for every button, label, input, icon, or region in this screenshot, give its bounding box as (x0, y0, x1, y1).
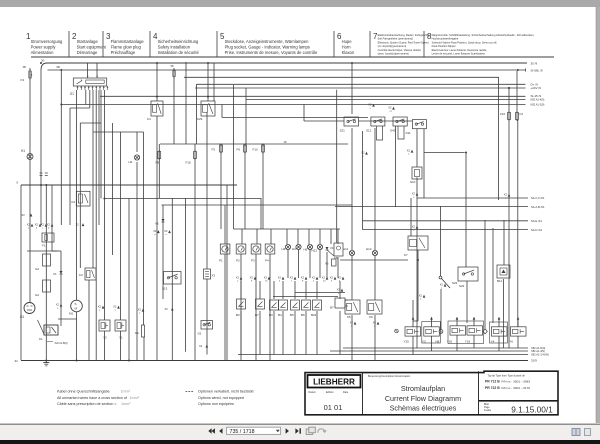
wire Y3 gnd (431, 336, 433, 351)
option frame Y4 (490, 322, 508, 343)
svg-text:Startanlage: Startanlage (77, 39, 99, 44)
svg-text:P2: P2 (236, 259, 240, 263)
svg-text:Klaxon: Klaxon (342, 50, 355, 55)
plug X5 (325, 259, 336, 266)
svg-text:Magnetventile: Schildfloatste: Magnetventile: Schildfloatstellung, Sich… (432, 33, 535, 37)
header section 7 (373, 32, 430, 56)
wire col F5 up (220, 144, 222, 147)
indicator lamp H4 (292, 244, 301, 251)
wire col S2 dn (440, 289, 442, 330)
statusbar layout icon 1 (572, 429, 580, 436)
toolbar rotate icon (318, 429, 326, 433)
wire mid link 198 (104, 198, 261, 200)
sensor B6 (301, 300, 311, 317)
wire stair 108 (70, 107, 90, 109)
switch S13 (162, 272, 181, 291)
junction bus30 a (40, 62, 42, 64)
svg-text:V4: V4 (330, 246, 334, 250)
svg-text:PR 712 B: PR 712 B (485, 380, 500, 384)
relay K3 (79, 268, 96, 280)
svg-text:Y1: Y1 (119, 336, 123, 340)
break mark col41 (40, 173, 43, 176)
wire col 44 low (40, 185, 42, 225)
relay K4 (147, 101, 163, 121)
wire Y16 gnd (473, 335, 475, 348)
svg-text:Feuille: Feuille (484, 409, 492, 412)
connector X2 (41, 223, 48, 230)
wire col F10 col (508, 88, 510, 112)
wire K1 to M1 (58, 318, 77, 320)
svg-text:H8: H8 (436, 340, 440, 344)
svg-text:Current Flow Diagramm: Current Flow Diagramm (385, 394, 461, 403)
connector X2 S13 (165, 307, 174, 311)
wire col R1 dn (143, 337, 145, 360)
toolbar prev-page button (219, 428, 222, 433)
switch S10 (410, 167, 422, 184)
relay K7 (404, 236, 428, 257)
svg-text:31/9: 31/9 (531, 359, 537, 363)
svg-text:735 / 1718: 735 / 1718 (230, 429, 255, 435)
indicator lamp H5 (304, 244, 313, 251)
svg-text:X2: X2 (153, 229, 157, 233)
battery G1 (20, 303, 35, 320)
wire col F1-K1-ground (45, 185, 47, 360)
connector X2 (138, 308, 145, 315)
connector X2 G1 col (22, 213, 33, 217)
svg-text:X2: X2 (388, 106, 392, 110)
svg-text:Levier de sécurité, Lame flott: Levier de sécurité, Lame flottante Scari… (432, 52, 486, 56)
wire Y3 top (431, 320, 433, 327)
svg-text:X2: X2 (368, 103, 372, 107)
junction bus30 b (156, 62, 158, 64)
wire col K3 down (88, 280, 90, 360)
svg-text:Plug socket, Gauge - Indicator: Plug socket, Gauge - Indicator, Warning … (225, 44, 310, 49)
wire K5 K6 link (295, 292, 345, 294)
wire col K3 up (79, 123, 81, 268)
wire loop S12 (377, 126, 383, 140)
toolbar first-page button (208, 428, 215, 433)
svg-text:F10: F10 (500, 112, 506, 116)
wire B7 gnd (339, 281, 341, 355)
wire col V1 (60, 251, 62, 326)
svg-text:Y26: Y26 (447, 340, 453, 344)
sensor B22 (311, 300, 322, 317)
svg-text:Prise, Instruments de mesure,: Prise, Instruments de mesure, Voyants de… (225, 50, 318, 55)
svg-text:X2: X2 (199, 344, 203, 348)
wire loop S43 (398, 126, 404, 139)
svg-text:S23: S23 (452, 281, 458, 285)
svg-text:M1: M1 (69, 312, 73, 316)
svg-text:Stromversorgung: Stromversorgung (31, 39, 63, 44)
svg-text:X2: X2 (264, 276, 268, 280)
wire col H4 dn (298, 250, 300, 279)
connector X2 (368, 103, 375, 110)
svg-text:K3: K3 (79, 273, 83, 277)
connector X2 (236, 276, 243, 283)
diode V1 (53, 271, 63, 276)
wire col S1 a4 (100, 90, 102, 199)
wire col S2 (440, 206, 442, 276)
svg-text:X2: X2 (338, 276, 342, 280)
svg-text:B6: B6 (301, 313, 305, 317)
svg-text:01 01: 01 01 (324, 403, 343, 412)
wire rail to Y4 column (184, 77, 499, 200)
bus SI-58L rail (48, 68, 543, 72)
legend options note (186, 390, 254, 407)
fuse supply rail (160, 143, 348, 145)
svg-text:G2: G2 (35, 267, 39, 271)
connector X2 (456, 317, 459, 320)
wire col S1 a5 (98, 90, 100, 225)
svg-text:B5: B5 (290, 313, 294, 317)
svg-text:X2: X2 (322, 276, 326, 280)
wire mid rail 117 (222, 117, 368, 119)
svg-text:Power supply: Power supply (31, 44, 57, 49)
svg-text:X5: X5 (325, 262, 329, 266)
right gray strip (597, 7, 600, 423)
chassis ground (43, 360, 49, 366)
svg-text:LIEBHERR: LIEBHERR (313, 378, 355, 387)
connector X2 (517, 317, 520, 320)
svg-text:PR 722 B: PR 722 B (485, 386, 500, 390)
wire Y6 gnd (517, 336, 519, 348)
svg-text:X22 A1-B(9): X22 A1-B(9) (55, 342, 68, 345)
wire col F8 up (158, 144, 160, 151)
wire col H11 dn (351, 256, 353, 300)
toolbar page field (227, 427, 281, 435)
svg-text:Stromlaufplan: Stromlaufplan (401, 384, 445, 393)
svg-text:6B: 6B (57, 65, 60, 69)
wire col S1 a (85, 90, 87, 105)
svg-text:S10: S10 (410, 180, 416, 184)
wire col S1 up2 (96, 63, 98, 78)
glow plug G2 lower (35, 280, 51, 297)
connector X2 (56, 303, 63, 310)
svg-text:SI-58L /9: SI-58L /9 (531, 68, 543, 72)
connector X2 (440, 283, 447, 290)
solenoid valve Y16 (465, 326, 483, 344)
fuse F2 (516, 111, 524, 121)
svg-text:B11: B11 (497, 279, 502, 283)
wire Y4 gnd (498, 336, 500, 351)
wire col 61 (60, 70, 62, 225)
wire col H22 dn (319, 250, 321, 279)
bus +24V rail (195, 86, 541, 90)
diamond H10 (483, 329, 487, 334)
connector X2 (113, 305, 120, 312)
svg-text:Edition: Edition (326, 391, 334, 394)
connector X2 (278, 276, 285, 283)
relay K6 (367, 300, 382, 319)
wire col F3-G1 (29, 68, 31, 302)
header section 1 (26, 32, 63, 55)
indicator lamp H12 (366, 247, 378, 256)
wire rail S4-C (417, 196, 545, 200)
svg-text:F1: F1 (42, 244, 46, 248)
fuse F10 (253, 144, 265, 154)
svg-text:Installation de sécurité: Installation de sécurité (158, 50, 200, 55)
junction A1-2 (60, 104, 62, 106)
ignition switch S1 (70, 76, 108, 96)
solenoid valve Y26 (447, 326, 466, 344)
wire col F15 up (194, 144, 196, 151)
svg-text:F5: F5 (212, 148, 216, 152)
svg-text:Hochdruckwertfreigabe: Hochdruckwertfreigabe (432, 37, 459, 41)
wire col F6 dn (244, 152, 246, 229)
title block page cell (484, 403, 553, 414)
svg-text:K82 A1-2(9): K82 A1-2(9) (531, 103, 545, 107)
bus X82 A1-D rail (343, 346, 545, 350)
glow plug G2 upper (35, 254, 51, 271)
svg-text:P3: P3 (251, 259, 255, 263)
header divider 8 (423, 31, 425, 57)
wire col 21 (20, 185, 22, 360)
svg-text:B4: B4 (278, 313, 282, 317)
wire col H11 (351, 128, 353, 250)
sensor B3 (269, 300, 279, 317)
svg-text:Kabel ohne Querschnittsangabe: Kabel ohne Querschnittsangabe (57, 390, 110, 394)
junction 58L b (517, 69, 519, 71)
toolbar last-page button (295, 428, 301, 433)
svg-text:X2: X2 (98, 305, 102, 309)
wire col S1 d (104, 90, 106, 255)
svg-text:X2: X2 (41, 223, 45, 227)
header section 5 (220, 32, 318, 55)
wire gauge bracket (234, 229, 341, 244)
svg-text:K1: K1 (39, 337, 43, 341)
svg-text:X2: X2 (337, 288, 341, 292)
junction bus15 c (103, 198, 105, 200)
connector X2 (373, 321, 380, 328)
sensor B7 (255, 299, 265, 317)
svg-text:1mm²: 1mm² (121, 402, 131, 406)
sensor B5 (290, 300, 300, 317)
svg-text:S4-C,0 /01: S4-C,0 /01 (531, 196, 545, 200)
toolbar snapshot icon (306, 427, 315, 434)
connector X2 (27, 223, 34, 230)
wire Y4 top (498, 320, 500, 327)
wire col V4 (326, 252, 328, 278)
svg-text:F10: F10 (253, 148, 259, 152)
wire B6 gnd (305, 281, 307, 355)
wire col 261 (260, 198, 262, 229)
Liebherr logo (308, 375, 361, 388)
svg-text:3B: 3B (23, 65, 26, 69)
wire col M1 up (76, 90, 78, 300)
junction bus31 c (128, 360, 130, 362)
svg-text:Optionen verkabelt, nicht best: Optionen verkabelt, nicht bestückt (198, 390, 254, 394)
wire B22 gnd (316, 281, 318, 355)
connector X2 (361, 151, 368, 158)
plug X3 (204, 269, 216, 279)
bus X82 A1-34V rail (238, 353, 549, 357)
gauge P2 framed (236, 244, 246, 263)
wire B4 gnd (282, 281, 284, 355)
svg-text:X82 A1-4(9): X82 A1-4(9) (531, 349, 545, 353)
svg-text:X2: X2 (113, 305, 117, 309)
gauge P4 framed (265, 244, 275, 263)
switch S22 (458, 267, 478, 288)
wire col H12 (374, 128, 376, 250)
svg-text:X2: X2 (312, 276, 316, 280)
junction S22 h (465, 152, 467, 154)
junction bus30 d (351, 62, 353, 64)
header divider 2 (68, 31, 70, 57)
svg-text:G2: G2 (35, 293, 39, 297)
svg-text:X3: X3 (212, 274, 216, 278)
bus D+ rail (196, 83, 538, 87)
wire col P2 dn (240, 254, 242, 360)
header section 3 (106, 32, 144, 55)
connector X2 (473, 317, 476, 320)
svg-text:Sicherheitseinrichtung: Sicherheitseinrichtung (158, 39, 199, 44)
svg-text:S13: S13 (162, 287, 168, 291)
svg-text:X2: X2 (301, 276, 305, 280)
header section 8 (427, 32, 535, 56)
svg-text:Y25: Y25 (404, 340, 410, 344)
wire col K7 up (410, 198, 412, 236)
wire col H2 (136, 132, 138, 152)
relay K5 (345, 300, 360, 319)
wire col 70 (69, 108, 71, 225)
fuse F15 (186, 150, 197, 165)
svg-text:X2: X2 (76, 223, 80, 227)
connector X2 K2 (76, 223, 85, 227)
fuse F8 (156, 150, 161, 165)
svg-text:Electronic System Guard, Red.T: Electronic System Guard, Red.Travel Spee… (378, 40, 429, 44)
svg-text:K6: K6 (369, 315, 373, 319)
sensor B2 (236, 299, 246, 317)
svg-text:X2: X2 (236, 276, 240, 280)
svg-text:H11: H11 (343, 247, 349, 251)
fuse F5 (212, 144, 223, 154)
svg-text:Typ ab Type from Type à pa: Typ ab Type from Type à partir de (488, 374, 526, 377)
svg-text:F/N xx - 3001→3170: F/N xx - 3001→3170 (502, 386, 531, 390)
wire col S10 (416, 129, 418, 167)
header divider 4 (149, 31, 151, 57)
svg-text:S: S (75, 302, 77, 306)
lamp H2 (129, 155, 140, 164)
wire B5 gnd (294, 281, 296, 355)
wire mid link 205 (162, 204, 353, 206)
wire Y6 top (517, 320, 519, 327)
wire col S22 up (465, 153, 467, 268)
svg-text:X2: X2 (290, 276, 294, 280)
wire col S1 c (95, 90, 97, 360)
starter motor M1 (69, 300, 82, 315)
svg-text:K82 A1-4(9): K82 A1-4(9) (531, 98, 545, 102)
svg-text:K2: K2 (72, 200, 76, 204)
svg-text:S4-E /01: S4-E /01 (531, 219, 542, 223)
wire G2 junction 2 (52, 250, 61, 252)
wire Y26 top (456, 320, 458, 326)
solenoid valve Y3 (422, 327, 439, 344)
svg-text:X2: X2 (138, 308, 142, 312)
wire col 479 (484, 220, 486, 329)
svg-text:K5: K5 (347, 315, 351, 319)
title block type cell (485, 374, 530, 390)
solenoid valve Y25 (404, 327, 421, 344)
connector X2 (388, 106, 395, 113)
svg-text:R1: R1 (135, 331, 139, 335)
buzzer S8 (334, 243, 343, 260)
wire col H3 dn (287, 250, 289, 279)
svg-text:(on Joystick)(permanent): (on Joystick)(permanent) (378, 44, 407, 48)
wire col 196 (195, 84, 197, 144)
svg-text:S11: S11 (406, 131, 411, 135)
svg-text:B3: B3 (269, 313, 273, 317)
fuse F16 (173, 69, 176, 79)
wire col F2 col (516, 71, 518, 112)
wire S21 row link (359, 120, 413, 122)
svg-text:15: 15 (284, 140, 288, 144)
connector X2 (301, 276, 308, 283)
connector X2 (47, 223, 54, 230)
connector X2 (504, 193, 511, 200)
start relay K1 (38, 320, 68, 345)
svg-text:Horn: Horn (342, 44, 352, 49)
connector X2 (35, 223, 42, 230)
junction bus31 a (45, 360, 47, 362)
connector X2 (290, 276, 297, 283)
wire col S8 dn (337, 257, 339, 278)
connector X2 (264, 276, 271, 283)
wire col V3 (162, 205, 164, 299)
junction rail a (156, 96, 158, 98)
title block description cell (368, 375, 461, 412)
connector X2 (430, 317, 433, 320)
svg-text:(avec Joystick)(permanent): (avec Joystick)(permanent) (378, 52, 409, 56)
svg-text:Float Position Ripper: Float Position Ripper (432, 44, 456, 48)
svg-text:Hupe: Hupe (342, 39, 353, 44)
svg-text:1mm²: 1mm² (121, 390, 131, 394)
wire col S3 dn (206, 279, 208, 355)
svg-text:F8: F8 (156, 161, 160, 165)
option frame Y26 Y16 (448, 321, 484, 344)
wire col K4 dn (156, 116, 158, 360)
wire B2 gnd (240, 281, 242, 355)
svg-text:B22: B22 (311, 313, 317, 317)
wire col H12 dn (374, 256, 376, 300)
statusbar layout icon 2 (585, 429, 591, 436)
lamp H9 (395, 329, 399, 333)
connector X2 (412, 225, 419, 232)
svg-text:31: 31 (15, 359, 19, 363)
indicator lamp H22 (312, 244, 323, 252)
svg-text:X2: X2 (350, 321, 354, 325)
wire Y16 top (473, 320, 475, 326)
svg-text:X2: X2 (407, 149, 411, 153)
title block frame (305, 371, 558, 415)
bus SI-15 rail (100, 94, 541, 98)
diode V3 (155, 219, 165, 226)
junction rail b (207, 96, 209, 98)
page edge shadow (595, 7, 598, 423)
svg-text:F15: F15 (186, 161, 192, 165)
wire col H5 dn (309, 250, 311, 279)
svg-text:K4: K4 (147, 117, 151, 121)
wire K7 link (340, 259, 408, 261)
switch S21 (340, 117, 359, 133)
switch S23 (439, 276, 458, 288)
switch S3 (198, 321, 213, 336)
switch S43 (390, 117, 407, 133)
svg-text:S22: S22 (459, 284, 465, 288)
svg-text:X2: X2 (278, 276, 282, 280)
wire K7 to Y25 (413, 320, 418, 322)
svg-text:Y2: Y2 (103, 336, 107, 340)
svg-text:30 /9: 30 /9 (531, 61, 538, 65)
